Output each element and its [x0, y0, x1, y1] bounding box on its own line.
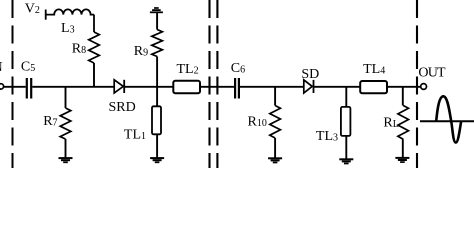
dashed boundary line left	[12, 0, 14, 168]
capacitor C6	[235, 78, 239, 99]
dashed boundary line right	[416, 0, 418, 168]
resistor RL	[398, 106, 409, 140]
ground RL	[395, 158, 409, 162]
dashed boundary line middle-right	[216, 0, 218, 168]
transmission line TL3	[341, 107, 351, 136]
wire RL upper	[402, 87, 404, 106]
ground TL3	[339, 159, 353, 163]
power rail symbol (inverted ground) above R9	[150, 8, 163, 12]
dashed boundary line middle-left	[208, 0, 210, 168]
ground TL1	[150, 158, 164, 162]
inductor L3	[47, 9, 95, 14]
transmission line TL4	[360, 81, 387, 93]
ground R7	[59, 158, 73, 162]
wire R8 lower	[93, 63, 95, 87]
wire R7 upper	[65, 87, 67, 108]
wire R10 upper	[274, 87, 276, 106]
wire SRD to TL2	[124, 86, 173, 88]
svg-text:IN: IN	[0, 60, 3, 75]
wire rail to R9	[156, 13, 158, 29]
svg-text:SD: SD	[301, 67, 319, 82]
resistor R8	[89, 32, 100, 63]
wire L3 to R8	[93, 15, 95, 32]
svg-text:SRD: SRD	[109, 100, 136, 115]
input terminal circle	[0, 84, 4, 89]
wire TL4 to OUT	[387, 86, 421, 88]
wire TL1 upper	[156, 87, 158, 107]
wire TL3 upper	[345, 87, 347, 107]
wire TL1 lower	[156, 134, 158, 157]
waveform sine pulse	[436, 96, 461, 142]
wire TL3 lower	[345, 136, 347, 159]
output terminal circle	[421, 84, 427, 90]
wire R9 lower	[156, 57, 158, 87]
ground R10	[268, 158, 282, 162]
resistor R9	[152, 30, 163, 57]
diode SD	[304, 80, 314, 93]
wire TL2 to C6	[200, 86, 235, 88]
transmission line TL1	[152, 106, 161, 134]
diode SRD	[114, 80, 124, 93]
resistor R7	[60, 108, 71, 139]
capacitor C5	[27, 78, 31, 99]
resistor R10	[270, 106, 281, 139]
wire R7 lower	[65, 139, 67, 157]
wire R10 lower	[274, 138, 276, 158]
wire SD to TL4	[313, 86, 360, 88]
wire input to C5	[4, 86, 26, 88]
wire RL lower	[402, 139, 404, 157]
wire C5 to SRD	[32, 86, 114, 88]
svg-text:OUT: OUT	[418, 65, 446, 80]
wire C6 to SD	[240, 86, 304, 88]
V2 source terminal tick	[45, 10, 47, 20]
transmission line TL2	[173, 81, 200, 94]
waveform axis line	[420, 120, 474, 122]
